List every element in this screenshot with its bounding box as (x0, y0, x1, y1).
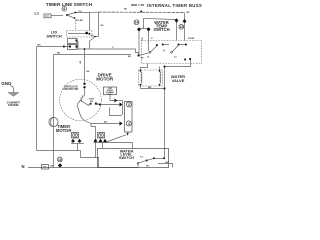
svg-text:PROTECTOR: PROTECTOR (63, 88, 78, 91)
junction bar (138, 28, 151, 30)
svg-text:12: 12 (179, 25, 183, 29)
timer line switch SW1 (62, 7, 83, 22)
svg-text:BK: BK (166, 162, 170, 164)
cent sw label (89, 99, 100, 105)
wire bottom left horizontal (37, 151, 99, 168)
wire water temp out right (165, 60, 191, 158)
connector diamond 2 (120, 102, 123, 107)
svg-text:N: N (22, 164, 25, 169)
svg-text:SWITCH: SWITCH (153, 27, 169, 32)
water valve box (139, 70, 163, 86)
wire branch2 left drop (143, 18, 145, 28)
svg-text:INTERNAL TIMER BUSS: INTERNAL TIMER BUSS (147, 3, 202, 8)
svg-text:BK: BK (57, 52, 61, 54)
svg-text:H: H (164, 50, 166, 53)
svg-text:6: 6 (100, 134, 102, 138)
connector diamond motor bottom (94, 139, 98, 143)
wire buss branch 2 (144, 18, 177, 20)
connector block 6 (98, 133, 105, 139)
svg-text:SW: SW (90, 101, 93, 103)
cap start box (104, 87, 117, 96)
svg-text:2: 2 (128, 103, 130, 107)
node circled 10 (57, 157, 62, 162)
node buss tick (140, 10, 143, 12)
wire bottom neutral (28, 167, 138, 169)
svg-text:10: 10 (58, 158, 62, 162)
svg-text:BU: BU (104, 122, 108, 124)
connector diamonds below 8 (71, 139, 75, 143)
svg-text:BK: BK (38, 44, 42, 46)
wire valve bottom (141, 86, 165, 89)
water level switch box (98, 149, 169, 168)
svg-text:BN: BN (148, 87, 152, 89)
wire rail vertical (110, 101, 123, 116)
svg-text:TIMER LINE SWITCH: TIMER LINE SWITCH (46, 2, 93, 7)
svg-text:MOTOR: MOTOR (56, 128, 72, 133)
wire under 6 to WLS (94, 143, 133, 149)
svg-text:ONLY: ONLY (107, 94, 113, 96)
wire WLS out right (158, 164, 173, 168)
svg-text:PK: PK (146, 165, 149, 167)
drive motor M1 (60, 79, 102, 121)
svg-text:6: 6 (63, 7, 65, 11)
legend internal timer buss (131, 3, 202, 8)
svg-text:PU-BK: PU-BK (76, 20, 83, 22)
svg-text:SWITCH: SWITCH (46, 33, 62, 38)
wire cap to rail (110, 95, 123, 101)
wire motor bottom out (82, 119, 96, 139)
svg-text:GND: GND (1, 81, 12, 86)
svg-text:8: 8 (74, 134, 76, 138)
wire drops to water temp switch (138, 32, 140, 55)
wire vertical right rail from buss (95, 12, 99, 36)
wire dashed drop to lid switch (75, 20, 77, 31)
motor windings (77, 94, 89, 119)
node circled 14 (134, 20, 139, 25)
wire internal timer buss top (99, 11, 185, 13)
wire lid switch down to motor (84, 49, 86, 83)
connector diamond 4 (120, 121, 123, 126)
wire drops right to box (176, 23, 178, 41)
node L1 (35, 12, 52, 18)
svg-text:14: 14 (135, 21, 139, 25)
wire buss drop right (184, 12, 186, 20)
svg-text:SWITCH: SWITCH (119, 156, 134, 160)
connector diamonds below 6 (99, 139, 103, 143)
wire left rail 1 (36, 47, 38, 151)
wire left rail 2 (53, 55, 55, 168)
node circled 12 (179, 24, 184, 29)
wire motor to connector 2 (95, 104, 120, 106)
connector block 2/4 (125, 102, 133, 133)
connector diamond below block (127, 133, 129, 136)
water level switch contacts (137, 157, 165, 168)
wire under 8 (71, 143, 84, 145)
wire switch to bus (77, 11, 99, 13)
svg-text:4: 4 (128, 122, 130, 126)
connector diamond neutral (58, 163, 62, 167)
wire lid switch output (89, 34, 95, 49)
connector diamond pair left of water temp switch (137, 27, 150, 31)
svg-text:VALVE: VALVE (172, 78, 185, 83)
solenoid coil left (140, 70, 142, 86)
water temp switch box (142, 41, 202, 64)
svg-text:MOTOR: MOTOR (96, 77, 114, 82)
connector block 8 (72, 133, 79, 139)
junction (164, 66, 166, 68)
svg-text:FRAME: FRAME (8, 103, 19, 107)
wire lid switch feed (89, 12, 91, 30)
wire block to bottom wire (105, 135, 126, 143)
wire L1 to switch (51, 15, 63, 17)
connector diamonds right top (175, 18, 187, 23)
water temp switch contacts (147, 44, 191, 61)
wire valve right coil stub (159, 67, 161, 71)
lid switch assembly (67, 31, 93, 50)
wire motor to connector 4 (91, 123, 120, 125)
svg-text:PU-BK: PU-BK (188, 38, 195, 40)
svg-text:L1: L1 (35, 12, 39, 16)
wire water temp out left to valve (141, 64, 148, 71)
wire left to lid switch (37, 46, 70, 48)
node GND (1, 81, 20, 107)
connector N plug (42, 165, 49, 170)
wire horizontal mid (54, 54, 132, 56)
solenoid coil right (159, 70, 161, 86)
overload protector (63, 83, 85, 94)
wire lid sw to water temp (78, 49, 139, 56)
timer motor M2 (49, 117, 58, 126)
